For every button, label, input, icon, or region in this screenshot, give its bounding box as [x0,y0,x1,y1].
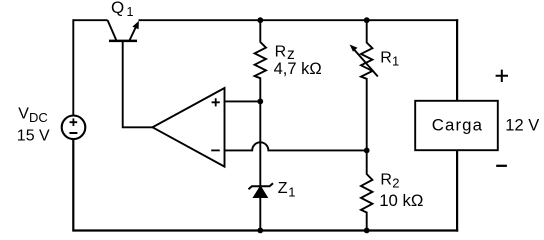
source VDC [62,116,86,140]
node dot zener bottom [257,228,263,234]
emitter lead diagonal [130,26,137,40]
wire left rail lower + bottom rail [73,139,458,231]
wire op-amp + input to node [225,100,261,102]
wire right rail upper [456,19,458,101]
wire zener branch vertical [259,101,261,230]
label Z1 [278,180,296,200]
node dot R1/R2 junction [364,148,370,154]
svg-text:R: R [380,172,392,189]
svg-text:1: 1 [288,185,295,200]
op-amp triangle [153,88,225,167]
label Q1 [111,0,134,19]
wire base down + op-amp output [123,42,154,128]
svg-text:R: R [275,43,287,60]
source plus [70,118,78,126]
label R1 [380,49,399,68]
svg-text:DC: DC [29,110,48,125]
R1 arrowhead [350,45,358,52]
label R2 [380,172,399,191]
resistor R1 (variable) [361,20,372,150]
collector lead diagonal [108,20,117,40]
load box Carga [415,101,498,150]
R1 arrow shaft [354,49,378,77]
svg-text:12 V: 12 V [505,116,539,134]
resistor Rz [255,20,266,101]
label VDC [18,106,47,126]
transistor Q1 [108,20,139,41]
svg-text:10 kΩ: 10 kΩ [379,191,423,210]
wire right rail lower [456,150,458,231]
node dot top Rz [257,17,263,23]
node dot top R1 [364,17,370,23]
label Rz [275,43,295,63]
op-amp minus input mark [211,149,220,151]
svg-text:Carga: Carga [432,116,483,135]
label plus (load polarity) [496,70,508,82]
source circle [62,116,86,140]
svg-text:1: 1 [392,54,399,69]
emitter arrowhead [132,21,139,29]
op-amp U1 [153,88,225,167]
base bar [109,40,137,43]
wire top-left segment [73,19,107,21]
op-amp plus input mark [212,98,220,106]
wire left rail upper [72,19,74,115]
svg-text:V: V [18,106,29,123]
svg-text:Q: Q [111,0,124,17]
wire top rail + right rail upper [139,19,459,21]
source minus [69,132,77,134]
zener cathode bar with bent ends [249,183,274,189]
label minus (load polarity) [496,165,507,167]
wire op-amp - input with hop to R1/R2 node [225,142,367,150]
svg-text:1: 1 [127,5,134,19]
resistor R2 [361,150,372,230]
zener anode triangle [254,187,267,198]
svg-text:15 V: 15 V [17,127,50,144]
zener Z1 [249,183,274,197]
svg-text:Z: Z [278,180,288,197]
node dot op-amp + input / Rz bottom [257,99,263,105]
svg-text:R: R [380,49,392,66]
svg-text:2: 2 [392,176,399,191]
svg-text:4,7 kΩ: 4,7 kΩ [274,60,322,78]
node dot R2 bottom [364,228,370,234]
zener triangle outline [254,187,267,198]
